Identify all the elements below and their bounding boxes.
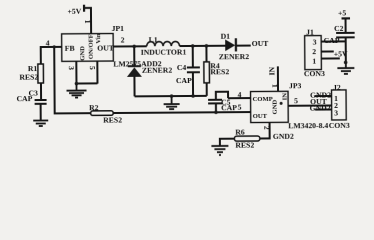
pin 4 label: [46, 38, 50, 47]
svg-text:COMP: COMP: [253, 96, 273, 103]
svg-text:RES2: RES2: [19, 73, 38, 82]
pin 5 label JP3 right: [294, 96, 298, 105]
IC JP3 LM3420: [251, 91, 289, 122]
svg-text:3: 3: [67, 66, 76, 70]
wire inductor to D1: [180, 45, 227, 47]
LM2575ADD2 value: [113, 59, 161, 68]
wire R2 to JP3 OUT: [113, 111, 250, 114]
svg-text:INDUCTOR1: INDUCTOR1: [141, 48, 187, 57]
resistor R1: [19, 64, 43, 83]
svg-text:CON3: CON3: [304, 69, 325, 78]
JP1 designator: [112, 24, 125, 33]
svg-text:GND2: GND2: [273, 132, 294, 141]
LM3420-8.4 value: [288, 121, 328, 130]
svg-text:+5V: +5V: [67, 7, 81, 16]
ground below bus: [164, 96, 180, 109]
svg-text:CAP: CAP: [176, 76, 192, 85]
svg-text:OUT: OUT: [253, 113, 268, 120]
pin 5 label: [88, 66, 97, 70]
node FB junction: [53, 45, 56, 48]
node R4 junction top: [205, 44, 209, 48]
power +5V left: [67, 5, 91, 35]
svg-text:1: 1: [270, 84, 279, 88]
svg-text:ZENER2: ZENER2: [142, 66, 173, 75]
svg-text:C2: C2: [334, 24, 344, 33]
svg-text:1: 1: [312, 57, 316, 66]
capacitor C4: [176, 46, 200, 96]
wire J1 pin2: [321, 50, 333, 52]
svg-text:JP1: JP1: [112, 24, 125, 33]
wire pin3 down: [75, 61, 77, 83]
node bus ground junction: [170, 94, 174, 98]
pin 3 label: [67, 66, 76, 70]
svg-text:5: 5: [88, 66, 97, 70]
net label IN rotated: [267, 66, 276, 75]
svg-text:2: 2: [312, 47, 316, 56]
svg-text:OUT: OUT: [97, 44, 115, 53]
svg-text:OUT: OUT: [252, 39, 270, 48]
svg-text:CAP: CAP: [221, 103, 237, 112]
svg-text:C4: C4: [177, 63, 187, 72]
regulator JP1 LM2575: [62, 33, 115, 61]
net label GND2 at pin2: [273, 132, 294, 141]
inductor L1: [141, 35, 187, 57]
wire pin5 down: [96, 61, 98, 83]
svg-text:D1: D1: [221, 32, 231, 41]
svg-text:5: 5: [238, 103, 242, 112]
svg-text:LM3420-8.4: LM3420-8.4: [288, 121, 328, 130]
pin 5 label JP3 left: [238, 103, 242, 112]
node C4 junction top: [191, 44, 195, 48]
resistor R4: [204, 46, 230, 96]
svg-text:FB: FB: [65, 44, 75, 53]
capacitor C5: [208, 92, 237, 113]
resistor R6: [234, 127, 260, 149]
diode D1: [219, 32, 251, 62]
svg-text:GND: GND: [272, 99, 279, 114]
power +5 right: [338, 8, 350, 18]
wire J1 pin3: [321, 40, 345, 42]
svg-text:GND: GND: [79, 46, 86, 61]
svg-text:RES2: RES2: [103, 115, 122, 124]
power port +5V right: [334, 49, 348, 58]
JP3 designator: [289, 81, 302, 90]
svg-text:4: 4: [238, 90, 242, 99]
svg-text:5: 5: [294, 96, 298, 105]
pin 1 label JP1: [83, 20, 92, 24]
svg-text:2: 2: [121, 35, 125, 44]
svg-text:+5: +5: [338, 8, 346, 17]
capacitor C2: [324, 19, 355, 63]
svg-text:Vin: Vin: [95, 33, 102, 43]
ground below C2: [337, 63, 354, 74]
svg-text:RES2: RES2: [210, 67, 229, 76]
connector J1: [305, 28, 322, 70]
ground below JP1: [66, 84, 86, 98]
svg-text:CON3: CON3: [329, 121, 350, 130]
wire FB: [41, 47, 62, 65]
svg-text:JP3: JP3: [289, 81, 302, 90]
svg-text:IN: IN: [267, 66, 276, 75]
CON3 label J2: [329, 121, 350, 130]
node bus C4 junction: [191, 94, 195, 98]
wire R6 to ground: [220, 139, 235, 146]
svg-text:RES2: RES2: [235, 141, 254, 150]
svg-text:R2: R2: [89, 103, 99, 112]
wire JP1 OUT to inductor: [113, 45, 146, 47]
node C5 bottom junction: [214, 110, 218, 114]
ground below R6: [211, 146, 228, 155]
svg-text:3: 3: [334, 108, 338, 117]
svg-text:GND2: GND2: [310, 103, 331, 112]
resistor R2: [89, 103, 122, 125]
svg-text:ON/OFF: ON/OFF: [88, 34, 95, 59]
svg-text:CAP: CAP: [17, 94, 33, 103]
net label OUT row2: [310, 97, 328, 106]
svg-text:1: 1: [83, 20, 92, 24]
node C2 ground junction: [344, 61, 348, 65]
svg-text:IN: IN: [282, 93, 289, 101]
wire pin2 down: [260, 122, 270, 138]
net label GND2 row3: [310, 103, 332, 112]
wire C3 to ground: [40, 104, 42, 120]
net label GND2 row1: [310, 90, 332, 99]
node pin3 junction: [75, 82, 79, 86]
wire R1 to C3: [40, 83, 42, 100]
wire IN: [277, 66, 279, 91]
zener D2: [127, 46, 173, 96]
wire pin5 right: [288, 104, 331, 106]
CON3 label J1: [304, 69, 325, 78]
svg-text:3: 3: [313, 38, 317, 47]
wire COMP: [228, 97, 250, 99]
svg-text:R6: R6: [235, 128, 245, 137]
wire J1 pin1: [321, 57, 339, 59]
svg-text:J2: J2: [333, 83, 341, 92]
pin 2 label JP3: [262, 126, 271, 130]
connector J2: [331, 83, 346, 120]
svg-text:ZENER2: ZENER2: [219, 52, 250, 61]
ground below C3: [33, 120, 48, 126]
wire FB node down to R2 line: [54, 47, 90, 114]
pin 2 label JP1: [121, 35, 125, 44]
capacitor C3: [17, 88, 47, 104]
wire ground bus: [135, 95, 207, 98]
pin 1 label JP3: [270, 84, 279, 88]
net label OUT: [252, 39, 270, 48]
svg-text:J1: J1: [306, 28, 314, 37]
pin 4 label JP3: [238, 90, 242, 99]
wire pin3-pin5 connect: [76, 82, 97, 84]
node D2 junction: [132, 45, 136, 49]
